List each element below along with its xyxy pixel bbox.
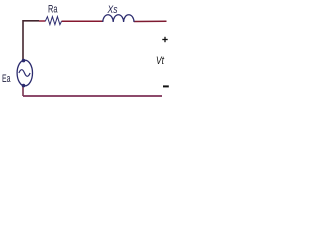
inductor Xs (coil) [103, 15, 134, 22]
wire: left vertical and top-left segment to resistor [23, 21, 45, 61]
wire: inductor to right terminal [134, 20, 167, 22]
svg-text:Ea: Ea [2, 73, 11, 85]
label Xs [107, 4, 118, 16]
wire: bottom rail [23, 95, 162, 97]
label Ea [2, 73, 11, 85]
ac source Ea: ellipse with sine wave and terminal dots [17, 59, 32, 88]
svg-text:Ra: Ra [48, 4, 58, 16]
resistor Ra (zigzag) [45, 17, 61, 25]
svg-text:Vt: Vt [156, 55, 165, 67]
terminal plus sign [162, 37, 167, 42]
label Ra [48, 4, 58, 16]
wire: source bottom lead [22, 86, 24, 96]
label Vt [156, 55, 165, 67]
wire: resistor to inductor [62, 20, 104, 22]
svg-text:Xs: Xs [107, 4, 118, 16]
terminal minus sign [163, 85, 169, 87]
